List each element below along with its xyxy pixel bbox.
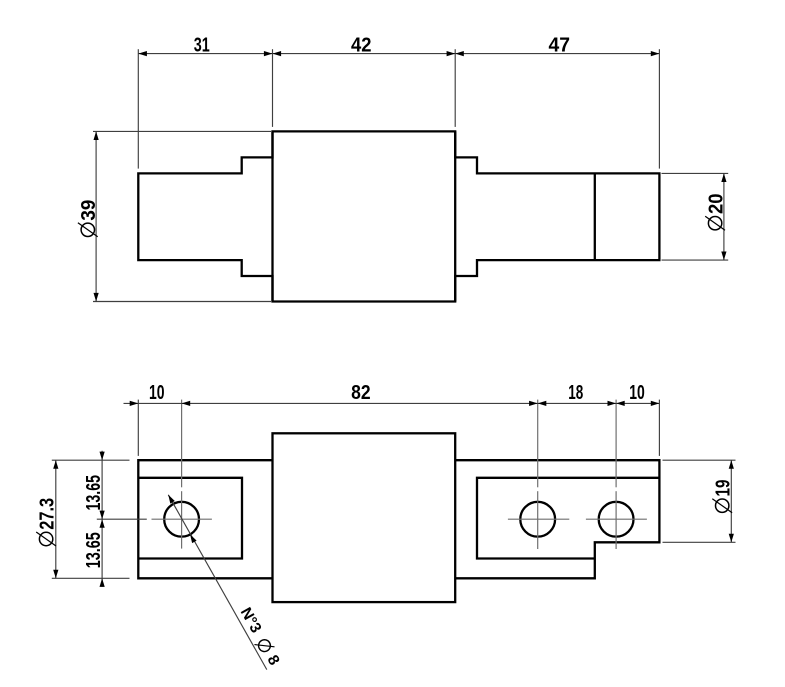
svg-text:10: 10 (629, 382, 645, 404)
label 13.65 lower (83, 532, 105, 568)
dimension line D27.3 (55, 460, 57, 578)
svg-text:20: 20 (705, 194, 727, 215)
front view shaft face line (594, 173, 596, 260)
leader arrow at far end (168, 495, 175, 504)
arrow D20 top (721, 173, 726, 182)
dimension line 31-42-47 (138, 53, 659, 55)
arrow D39 top (94, 131, 99, 140)
centerline H2 vertical (537, 400, 539, 549)
label D39 (78, 200, 100, 237)
front view flange right edge (454, 131, 456, 301)
svg-text:39: 39 (78, 200, 100, 221)
label 47 (549, 34, 571, 56)
arrow 10 right (651, 401, 660, 406)
arrow 10 left outside (130, 401, 139, 406)
svg-text:47: 47 (549, 34, 571, 56)
svg-text:13.65: 13.65 (83, 475, 105, 511)
extension line x=659 plan (658, 400, 660, 456)
svg-text:42: 42 (351, 34, 372, 56)
arrow D20 bottom (721, 252, 726, 261)
hole H3 (599, 502, 634, 537)
arrow 10 right / 82 left (182, 401, 191, 406)
centerline H2 horizontal (508, 518, 569, 520)
svg-text:19: 19 (712, 480, 734, 497)
arrow 13.65 top outside (100, 452, 105, 461)
extension line y=542 for D19 (663, 541, 736, 543)
extension line y=131 for D39 (93, 130, 271, 132)
svg-text:18: 18 (568, 382, 583, 404)
svg-text:82: 82 (351, 382, 371, 404)
plan view block outline (273, 433, 456, 602)
arrow 47 right (651, 51, 660, 56)
extension line y=301 for D39 (93, 301, 271, 303)
dimension line D39 (95, 131, 97, 301)
dimension line D19 (730, 460, 732, 542)
label 31 (194, 34, 210, 56)
extension line y=578 for D27.3 (52, 577, 130, 579)
label 42 (351, 34, 372, 56)
arrow D39 bottom (94, 293, 99, 302)
arrow D27.3 bottom (53, 570, 58, 579)
extension line x=138 (137, 49, 139, 168)
extension line y=173 for D20 (662, 172, 729, 174)
svg-text:31: 31 (194, 34, 210, 56)
centerline H1 vertical (181, 400, 183, 549)
plan view right pocket (477, 478, 659, 559)
label D20 (705, 194, 727, 231)
extension line y=460 for D27.3 (52, 459, 130, 461)
front view part outline (138, 131, 659, 301)
extension line x=455 (454, 49, 456, 127)
arrow 31 right / 42 left (264, 51, 281, 56)
dimension line D20 (723, 173, 725, 260)
arrow 13.65 middle bowtie (100, 511, 105, 528)
arrow D19 top (729, 460, 734, 469)
hole H2 (520, 502, 555, 537)
centerline H3 horizontal (586, 518, 647, 520)
arrow 82 right / 18 left (529, 401, 546, 406)
extension line x=659 (658, 49, 660, 168)
svg-text:10: 10 (149, 382, 165, 404)
arrow D19 bottom (729, 534, 734, 543)
label 13.65 upper (83, 475, 105, 511)
extension line y=260 for D20 (662, 259, 729, 261)
extension line y=519 for 13.65 (97, 518, 147, 520)
arrow 18 right / 10 left (608, 401, 625, 406)
extension line x=272 (272, 49, 274, 127)
arrow 42 right / 47 left (447, 51, 464, 56)
arrow 13.65 bottom outside (100, 578, 105, 587)
label 18 (568, 382, 583, 404)
svg-text:27.3: 27.3 (36, 498, 58, 530)
centerline H3 vertical (615, 400, 617, 549)
label N3 D8 (237, 605, 283, 669)
extension line y=460 for D19 (663, 459, 736, 461)
front view flange left edge (271, 131, 273, 301)
plan view left pocket (138, 478, 242, 559)
dimension line 10-82-18-10 (124, 402, 660, 404)
extension line x=138 plan (137, 400, 139, 456)
label 10 left (149, 382, 165, 404)
dimension line 13.65 (101, 451, 103, 587)
label D27.3 (36, 498, 58, 546)
arrow D27.3 top (53, 460, 58, 469)
label D19 (712, 480, 734, 513)
centerline H1 horizontal (152, 518, 212, 520)
leader line N3 D8 (168, 495, 266, 670)
svg-text:13.65: 13.65 (83, 532, 105, 568)
arrow 31 left (138, 51, 147, 56)
plan view bar outline (138, 460, 659, 578)
leader arrow at hole edge (190, 534, 197, 543)
label 10 right (629, 382, 645, 404)
hole H1 (164, 502, 199, 537)
label 82 (351, 382, 371, 404)
